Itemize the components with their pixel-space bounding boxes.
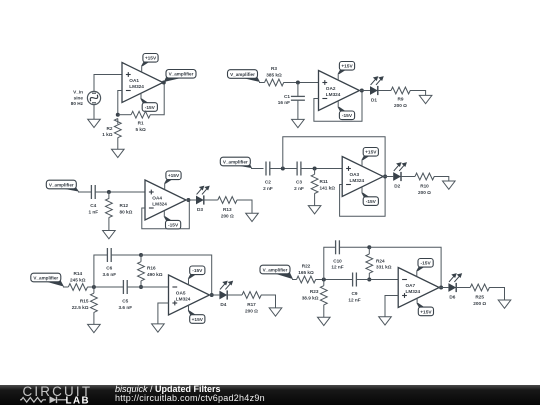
svg-text:V_in: V_in (73, 90, 83, 95)
LED D1 (370, 77, 383, 95)
wire flag to C2 (251, 168, 264, 170)
wire C1 to ground (297, 101, 299, 120)
wire node to R23 (323, 280, 325, 286)
label R1 5 kOhm (135, 121, 146, 132)
capacitor C1 (291, 96, 305, 100)
resistor R17 (242, 292, 261, 299)
flag -15V OA3 (361, 187, 378, 206)
svg-text:200 Ω: 200 Ω (221, 214, 234, 219)
wire OA5 + to ground (158, 303, 169, 324)
svg-text:V_amplifier: V_amplifier (223, 159, 248, 164)
svg-text:LM324: LM324 (129, 84, 144, 89)
svg-text:C5: C5 (122, 299, 128, 304)
svg-text:200 Ω: 200 Ω (394, 103, 407, 108)
svg-text:22.5 kΩ: 22.5 kΩ (72, 305, 89, 310)
svg-text:2 nF: 2 nF (263, 186, 273, 191)
wire C9 to OA7 - (357, 279, 399, 281)
svg-text:LM324: LM324 (326, 92, 341, 97)
label R24 331 kOhm (376, 258, 392, 269)
svg-text:C10: C10 (333, 258, 342, 263)
node R16 top (139, 253, 143, 257)
ground below R23 (318, 317, 331, 325)
wire R10 to ground (434, 177, 449, 182)
flag -15V OA5 (188, 266, 205, 285)
svg-text:D3: D3 (197, 207, 203, 212)
svg-text:LM324: LM324 (152, 201, 167, 206)
wire C5 to OA5 - (128, 286, 169, 288)
wire flag to R3 (259, 82, 265, 84)
svg-text:-15V: -15V (366, 199, 377, 205)
svg-text:V_amplifier: V_amplifier (33, 275, 58, 280)
resistor R24 (366, 254, 373, 273)
node C2/C3/feedback (281, 167, 285, 171)
node R22/R23/C10 (322, 278, 326, 282)
wire OA7 output to D6 (439, 287, 448, 289)
svg-text:OA5: OA5 (176, 290, 186, 295)
wire R3 to OA2 + (284, 82, 319, 84)
capacitor C10 (336, 240, 340, 254)
node OA5 output (210, 293, 214, 297)
svg-text:490 kΩ: 490 kΩ (147, 272, 163, 277)
wire R11 to ground (314, 193, 316, 205)
flag +15V OA5 (188, 305, 205, 323)
ground below V_in (88, 119, 101, 127)
flag +15V OA3 (361, 148, 378, 167)
wire R14 to C5 (87, 286, 123, 288)
svg-text:OA2: OA2 (326, 86, 336, 91)
svg-text:38.9 kΩ: 38.9 kΩ (302, 295, 319, 300)
label R23 38.9 kOhm (302, 289, 319, 300)
svg-text:sine: sine (74, 95, 84, 100)
node OA4 output (186, 198, 190, 202)
ground below R12 (103, 231, 116, 239)
flag -15V OA4 (164, 211, 181, 229)
label R2 1 kOhm (102, 126, 113, 137)
wire up to C6 (94, 255, 107, 287)
wire OA7 + to ground (385, 296, 398, 317)
capacitor C9 (353, 273, 357, 287)
svg-text:80 Hz: 80 Hz (71, 101, 84, 106)
op-amp OA1 (122, 63, 163, 103)
svg-text:R3: R3 (271, 66, 277, 71)
ground below R11 (308, 206, 321, 214)
ground below R15 (88, 324, 101, 332)
capacitor C3 (297, 162, 301, 176)
label C10 12 nF (331, 258, 343, 269)
wire OA5 top feedback (141, 255, 212, 295)
node R24 bottom (367, 278, 371, 282)
label C4 1 nF (88, 203, 98, 214)
LED D4 (219, 281, 232, 299)
flag V_amplifier input OA3 (220, 157, 252, 168)
svg-text:141 kΩ: 141 kΩ (320, 186, 336, 191)
resistor R3 (265, 79, 284, 86)
svg-text:385 kΩ: 385 kΩ (266, 72, 282, 77)
svg-text:V_amplifier: V_amplifier (263, 267, 288, 272)
svg-text:OA3: OA3 (350, 172, 360, 177)
capacitor C4 (91, 185, 95, 199)
svg-text:R11: R11 (320, 179, 329, 184)
op-amp OA3 (342, 157, 383, 197)
flag +15V OA7 (416, 298, 433, 315)
wire to R16 (140, 255, 142, 262)
node OA1 output (162, 81, 166, 85)
wire R2 to ground (117, 138, 119, 150)
svg-text:3.6 nF: 3.6 nF (103, 272, 117, 277)
wire node to R12 (108, 192, 110, 199)
svg-text:R15: R15 (80, 299, 89, 304)
svg-text:-15V: -15V (168, 223, 179, 229)
node R3/C1 (296, 81, 300, 85)
wire OA3 top feedback (283, 137, 385, 177)
wire flag to R14 (63, 286, 68, 288)
svg-text:16 nF: 16 nF (278, 100, 290, 105)
ground below R2 (112, 149, 125, 157)
label C6 3.6 nF (103, 266, 117, 277)
wire OA3 bottom feedback (340, 177, 386, 217)
svg-text:R12: R12 (120, 203, 129, 208)
label C9 12 nF (348, 291, 360, 302)
svg-text:R16: R16 (147, 266, 156, 271)
svg-text:331 kΩ: 331 kΩ (376, 265, 392, 270)
label R13 200 Ohm (221, 207, 234, 218)
wire C3 to OA3 + (301, 168, 342, 170)
flag V_amplifier input OA4 (46, 180, 79, 191)
op-amp OA4 (145, 180, 186, 220)
svg-text:LM324: LM324 (406, 289, 421, 294)
label R15 22.5 kOhm (72, 299, 89, 310)
wire D6 to R25 (456, 287, 470, 289)
wire C4 to OA4 + (96, 191, 146, 193)
svg-text:V_amplifier: V_amplifier (230, 72, 255, 77)
svg-text:+15V: +15V (192, 317, 204, 323)
flag -15V OA2 (338, 101, 355, 120)
ground below C1 (292, 119, 305, 127)
wire flag to C4 (78, 191, 91, 193)
wire OA4 output to D3 (186, 199, 196, 201)
wire node to C1 (297, 83, 299, 97)
svg-text:+15V: +15V (341, 64, 353, 70)
flag -15V OA1 (140, 93, 157, 111)
node R24 top (367, 245, 371, 249)
svg-text:1 kΩ: 1 kΩ (102, 132, 113, 137)
svg-text:LM324: LM324 (176, 296, 191, 301)
wire node to R11 (314, 169, 316, 175)
svg-text:D4: D4 (220, 302, 226, 307)
resistor R2 (114, 119, 121, 138)
wire C6 to R16 top (112, 254, 142, 256)
svg-text:R1: R1 (138, 121, 144, 126)
node R14/R15/C6 (92, 285, 96, 289)
resistor R15 (91, 293, 98, 312)
wire D3 to R13 (204, 199, 218, 201)
flag V_amplifier input OA2 (228, 70, 261, 82)
ground at OA7 + (379, 317, 392, 325)
svg-text:1 nF: 1 nF (88, 210, 98, 215)
svg-text:D2: D2 (394, 184, 400, 189)
wire OA1 - feedback left (118, 91, 122, 115)
svg-text:+15V: +15V (145, 56, 157, 62)
ground after R13 (246, 213, 259, 221)
wire flag to R22 (292, 279, 297, 281)
svg-text:200 Ω: 200 Ω (245, 309, 258, 314)
op-amp OA7 (398, 268, 439, 308)
resistor R13 (218, 197, 237, 204)
label R10 200 Ohm (418, 184, 431, 195)
voltage source V_in sine 80 Hz (87, 91, 100, 104)
ground after R9 (419, 95, 432, 103)
resistor R22 (297, 276, 316, 283)
wire R23 to ground (323, 305, 325, 318)
flag -15V OA7 (416, 259, 433, 277)
wire node to R15 (93, 287, 95, 293)
label C3 2 nF (294, 180, 304, 191)
resistor R16 (138, 262, 145, 281)
svg-text:+15V: +15V (168, 173, 180, 179)
wire OA2 output to D1 (360, 90, 371, 92)
node R16 bottom (139, 285, 143, 289)
svg-text:R23: R23 (310, 289, 319, 294)
svg-text:D6: D6 (449, 295, 455, 300)
svg-text:+15V: +15V (365, 150, 377, 156)
node C4/R12 (107, 190, 111, 194)
wire C10 to R24 top (340, 246, 370, 248)
wire D1 to R9 (378, 90, 391, 92)
ground after R10 (443, 181, 456, 189)
svg-text:C2: C2 (265, 180, 271, 185)
svg-text:R9: R9 (398, 97, 404, 102)
label R25 200 Ohm (473, 295, 486, 306)
svg-text:12 nF: 12 nF (331, 265, 343, 270)
label C2 2 nF (263, 180, 273, 191)
svg-text:C9: C9 (352, 291, 358, 296)
svg-text:5 kΩ: 5 kΩ (135, 127, 146, 132)
flag +15V OA2 (338, 62, 355, 81)
node OA2 output (360, 89, 364, 93)
capacitor C6 (107, 248, 111, 262)
node R1/R2 junction (116, 113, 120, 117)
resistor R1 (131, 111, 150, 118)
wire D4 to R17 (227, 294, 242, 296)
wire R12 to ground (108, 217, 110, 230)
label R17 200 Ohm (245, 302, 258, 313)
wire R2 top (117, 119, 119, 125)
wire R24 bottom (368, 273, 370, 280)
node OA3 output (383, 175, 387, 179)
svg-text:OA7: OA7 (406, 283, 416, 288)
wire D2 to R10 (401, 176, 415, 178)
wire V_in to OA1 + (94, 75, 122, 92)
node C3/R11 (313, 167, 317, 171)
ground after R25 (498, 300, 511, 308)
label C5 3.6 nF (119, 299, 133, 310)
svg-text:80 kΩ: 80 kΩ (120, 210, 133, 215)
wire OA3 output to D2 (383, 176, 393, 178)
svg-text:R24: R24 (376, 258, 385, 263)
resistor R9 (391, 87, 410, 94)
wire R25 to ground (489, 288, 504, 301)
node OA7 output (439, 286, 443, 290)
svg-text:R22: R22 (302, 264, 311, 269)
resistor R10 (415, 173, 434, 180)
CircuitLab logo diode triangle (50, 396, 57, 403)
label R9 200 Ohm (394, 97, 407, 108)
svg-text:http://circuitlab.com/ctv6pad2: http://circuitlab.com/ctv6pad2h4z9n (115, 393, 265, 403)
svg-text:12 nF: 12 nF (348, 297, 360, 302)
svg-text:200 Ω: 200 Ω (418, 190, 431, 195)
svg-text:165 kΩ: 165 kΩ (298, 270, 314, 275)
resistor R14 (68, 284, 87, 291)
capacitor C5 (123, 280, 127, 294)
wire C2 to C3 (270, 168, 297, 170)
svg-text:C3: C3 (296, 180, 302, 185)
label R16 490 kOhm (147, 266, 163, 277)
svg-text:R13: R13 (223, 207, 232, 212)
svg-text:200 Ω: 200 Ω (473, 301, 486, 306)
resistor R23 (320, 286, 327, 305)
wire R9 to ground (410, 91, 426, 96)
wire R22 to C9 (316, 279, 353, 281)
resistor R12 (106, 198, 113, 217)
label R22 165 kOhm (298, 264, 314, 275)
wire OA4 feedback (142, 200, 190, 229)
flag V_amplifier input OA5 (31, 273, 64, 286)
resistor R25 (470, 284, 489, 291)
flag +15V OA4 (164, 171, 181, 190)
svg-text:245 kΩ: 245 kΩ (70, 277, 86, 282)
LED D6 (448, 274, 461, 292)
svg-text:LM324: LM324 (350, 178, 365, 183)
wire R1 to OA1 output (150, 83, 164, 115)
wire OA5 output to D4 (210, 294, 220, 296)
label R11 141 kOhm (320, 179, 336, 190)
svg-text:R10: R10 (420, 184, 429, 189)
ground at OA5 + (152, 324, 165, 332)
label V_in sine 80 Hz (71, 90, 84, 106)
svg-text:R2: R2 (107, 126, 113, 131)
wire OA2 feedback (314, 91, 362, 122)
svg-text:+15V: +15V (420, 309, 432, 315)
CircuitLab logo resistor-diode line (20, 397, 67, 404)
svg-text:LAB: LAB (66, 395, 91, 405)
wire R13 to ground (237, 200, 252, 213)
op-amp OA5 (169, 275, 210, 315)
wire V_in to ground (93, 105, 95, 120)
svg-text:V_amplifier: V_amplifier (49, 182, 74, 187)
ground after R17 (269, 308, 282, 316)
wire R16 bottom (140, 281, 142, 287)
resistor R11 (311, 174, 318, 193)
wire to R24 (368, 247, 370, 254)
wire R15 to ground (93, 312, 95, 324)
label R12 80 kOhm (120, 203, 133, 214)
svg-text:2 nF: 2 nF (294, 186, 304, 191)
wire up to C10 (324, 247, 336, 279)
svg-text:R25: R25 (475, 295, 484, 300)
svg-text:-15V: -15V (421, 261, 432, 267)
wire R17 to ground (261, 295, 276, 308)
capacitor C2 (266, 162, 270, 176)
svg-text:C1: C1 (284, 94, 290, 99)
svg-text:-15V: -15V (342, 113, 353, 119)
svg-text:3.6 nF: 3.6 nF (119, 305, 133, 310)
svg-text:D1: D1 (371, 98, 377, 103)
svg-text:R14: R14 (73, 271, 82, 276)
flag V_amplifier input OA7 (260, 265, 293, 279)
svg-text:C6: C6 (106, 266, 112, 271)
op-amp OA2 (319, 71, 360, 111)
svg-text:R17: R17 (247, 302, 256, 307)
wire to R1 (118, 114, 131, 116)
svg-text:OA1: OA1 (129, 78, 139, 83)
svg-text:-15V: -15V (192, 268, 203, 274)
LED D2 (393, 163, 406, 181)
label C1 16 nF (278, 94, 291, 105)
LED D3 (196, 186, 209, 204)
label R3 385 kOhm (266, 66, 282, 77)
svg-text:C4: C4 (90, 203, 96, 208)
label R14 245 kOhm (70, 271, 86, 282)
svg-text:V_amplifier: V_amplifier (169, 72, 194, 77)
svg-text:OA4: OA4 (152, 195, 162, 200)
flag +15V OA1 (141, 54, 158, 73)
wire OA7 top feedback (369, 247, 441, 287)
svg-text:-15V: -15V (145, 105, 156, 111)
flag V_amplifier OA1 output (164, 70, 196, 83)
